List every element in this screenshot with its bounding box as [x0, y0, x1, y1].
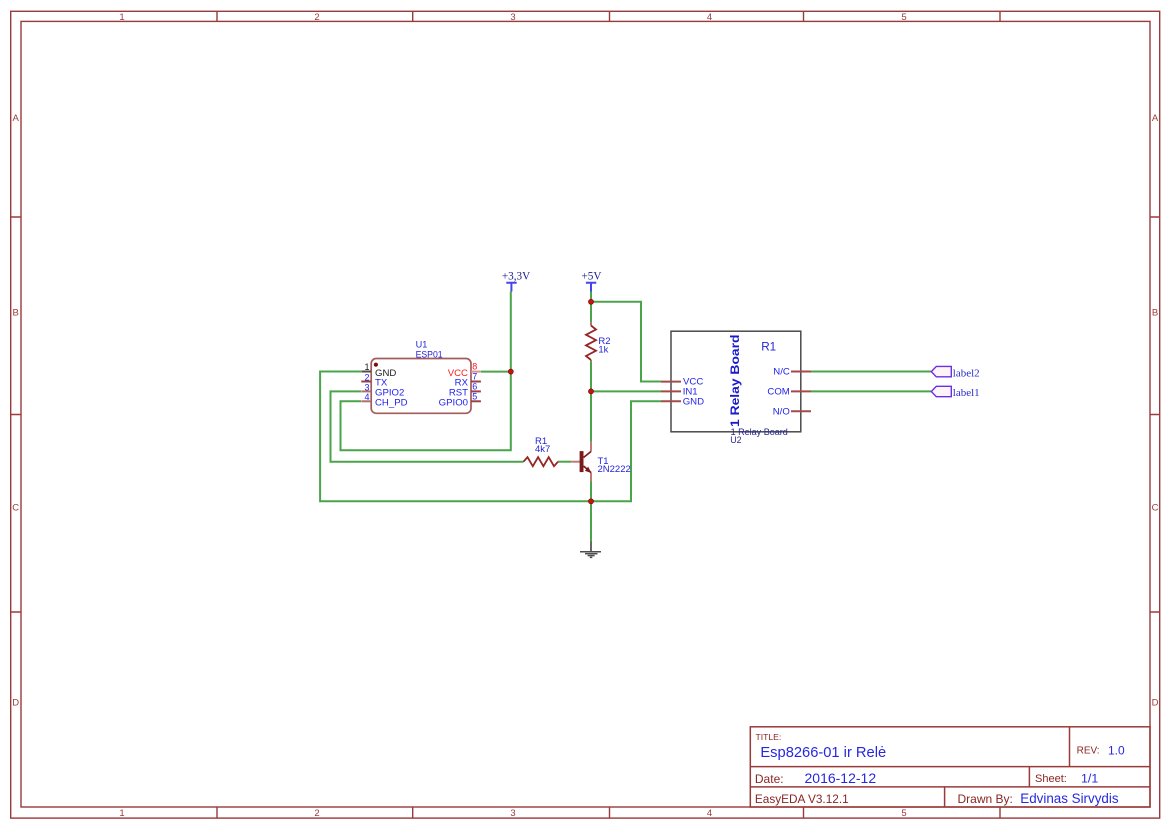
svg-text:B: B: [1152, 308, 1158, 319]
svg-text:D: D: [12, 697, 19, 708]
svg-text:1k: 1k: [598, 345, 608, 356]
svg-text:3: 3: [510, 808, 515, 819]
svg-text:REV:: REV:: [1077, 745, 1100, 756]
svg-text:4: 4: [364, 392, 369, 402]
svg-text:B: B: [13, 308, 19, 319]
svg-text:D: D: [1152, 697, 1159, 708]
svg-text:ESP01: ESP01: [416, 349, 443, 360]
svg-text:R1: R1: [761, 341, 776, 354]
svg-text:A: A: [13, 113, 20, 124]
svg-text:3: 3: [510, 12, 515, 23]
svg-text:7: 7: [472, 372, 477, 382]
svg-text:Drawn By:: Drawn By:: [958, 792, 1013, 806]
svg-text:1: 1: [364, 362, 369, 372]
svg-text:2016-12-12: 2016-12-12: [805, 770, 877, 786]
svg-text:GND: GND: [683, 396, 704, 407]
svg-text:A: A: [1152, 113, 1159, 124]
svg-text:2N2222: 2N2222: [598, 464, 631, 475]
svg-text:3: 3: [364, 382, 369, 392]
svg-text:5: 5: [472, 391, 477, 401]
svg-text:N/O: N/O: [773, 406, 790, 417]
svg-text:GPIO0: GPIO0: [439, 398, 468, 409]
svg-text:5: 5: [901, 808, 906, 819]
svg-text:COM: COM: [767, 387, 789, 398]
svg-text:N/C: N/C: [773, 367, 790, 378]
svg-text:1: 1: [119, 808, 124, 819]
svg-text:8: 8: [472, 361, 477, 371]
svg-text:4k7: 4k7: [535, 444, 550, 455]
svg-text:1: 1: [119, 12, 124, 23]
svg-text:2: 2: [314, 808, 319, 819]
svg-text:+5V: +5V: [582, 271, 602, 283]
svg-text:2: 2: [364, 372, 369, 382]
svg-text:TITLE:: TITLE:: [756, 732, 782, 742]
svg-text:4: 4: [707, 12, 712, 23]
svg-text:CH_PD: CH_PD: [375, 398, 408, 409]
svg-text:label2: label2: [953, 367, 980, 379]
svg-text:U2: U2: [730, 435, 741, 445]
svg-text:Date:: Date:: [755, 772, 784, 786]
svg-text:1.0: 1.0: [1108, 743, 1125, 757]
svg-text:2: 2: [314, 12, 319, 23]
svg-text:Esp8266-01 ir Relė: Esp8266-01 ir Relė: [760, 745, 886, 761]
svg-text:5: 5: [901, 12, 906, 23]
svg-text:Edvinas Sirvydis: Edvinas Sirvydis: [1020, 791, 1119, 806]
svg-text:EasyEDA V3.12.1: EasyEDA V3.12.1: [755, 792, 849, 806]
svg-text:C: C: [1152, 503, 1159, 514]
svg-text:1/1: 1/1: [1081, 772, 1098, 786]
svg-text:C: C: [12, 503, 19, 514]
svg-text:+3,3V: +3,3V: [502, 271, 530, 283]
svg-text:label1: label1: [953, 387, 980, 399]
svg-text:6: 6: [472, 382, 477, 392]
svg-text:4: 4: [707, 808, 712, 819]
svg-text:1 Relay Board: 1 Relay Board: [730, 335, 742, 428]
svg-text:Sheet:: Sheet:: [1035, 773, 1067, 785]
